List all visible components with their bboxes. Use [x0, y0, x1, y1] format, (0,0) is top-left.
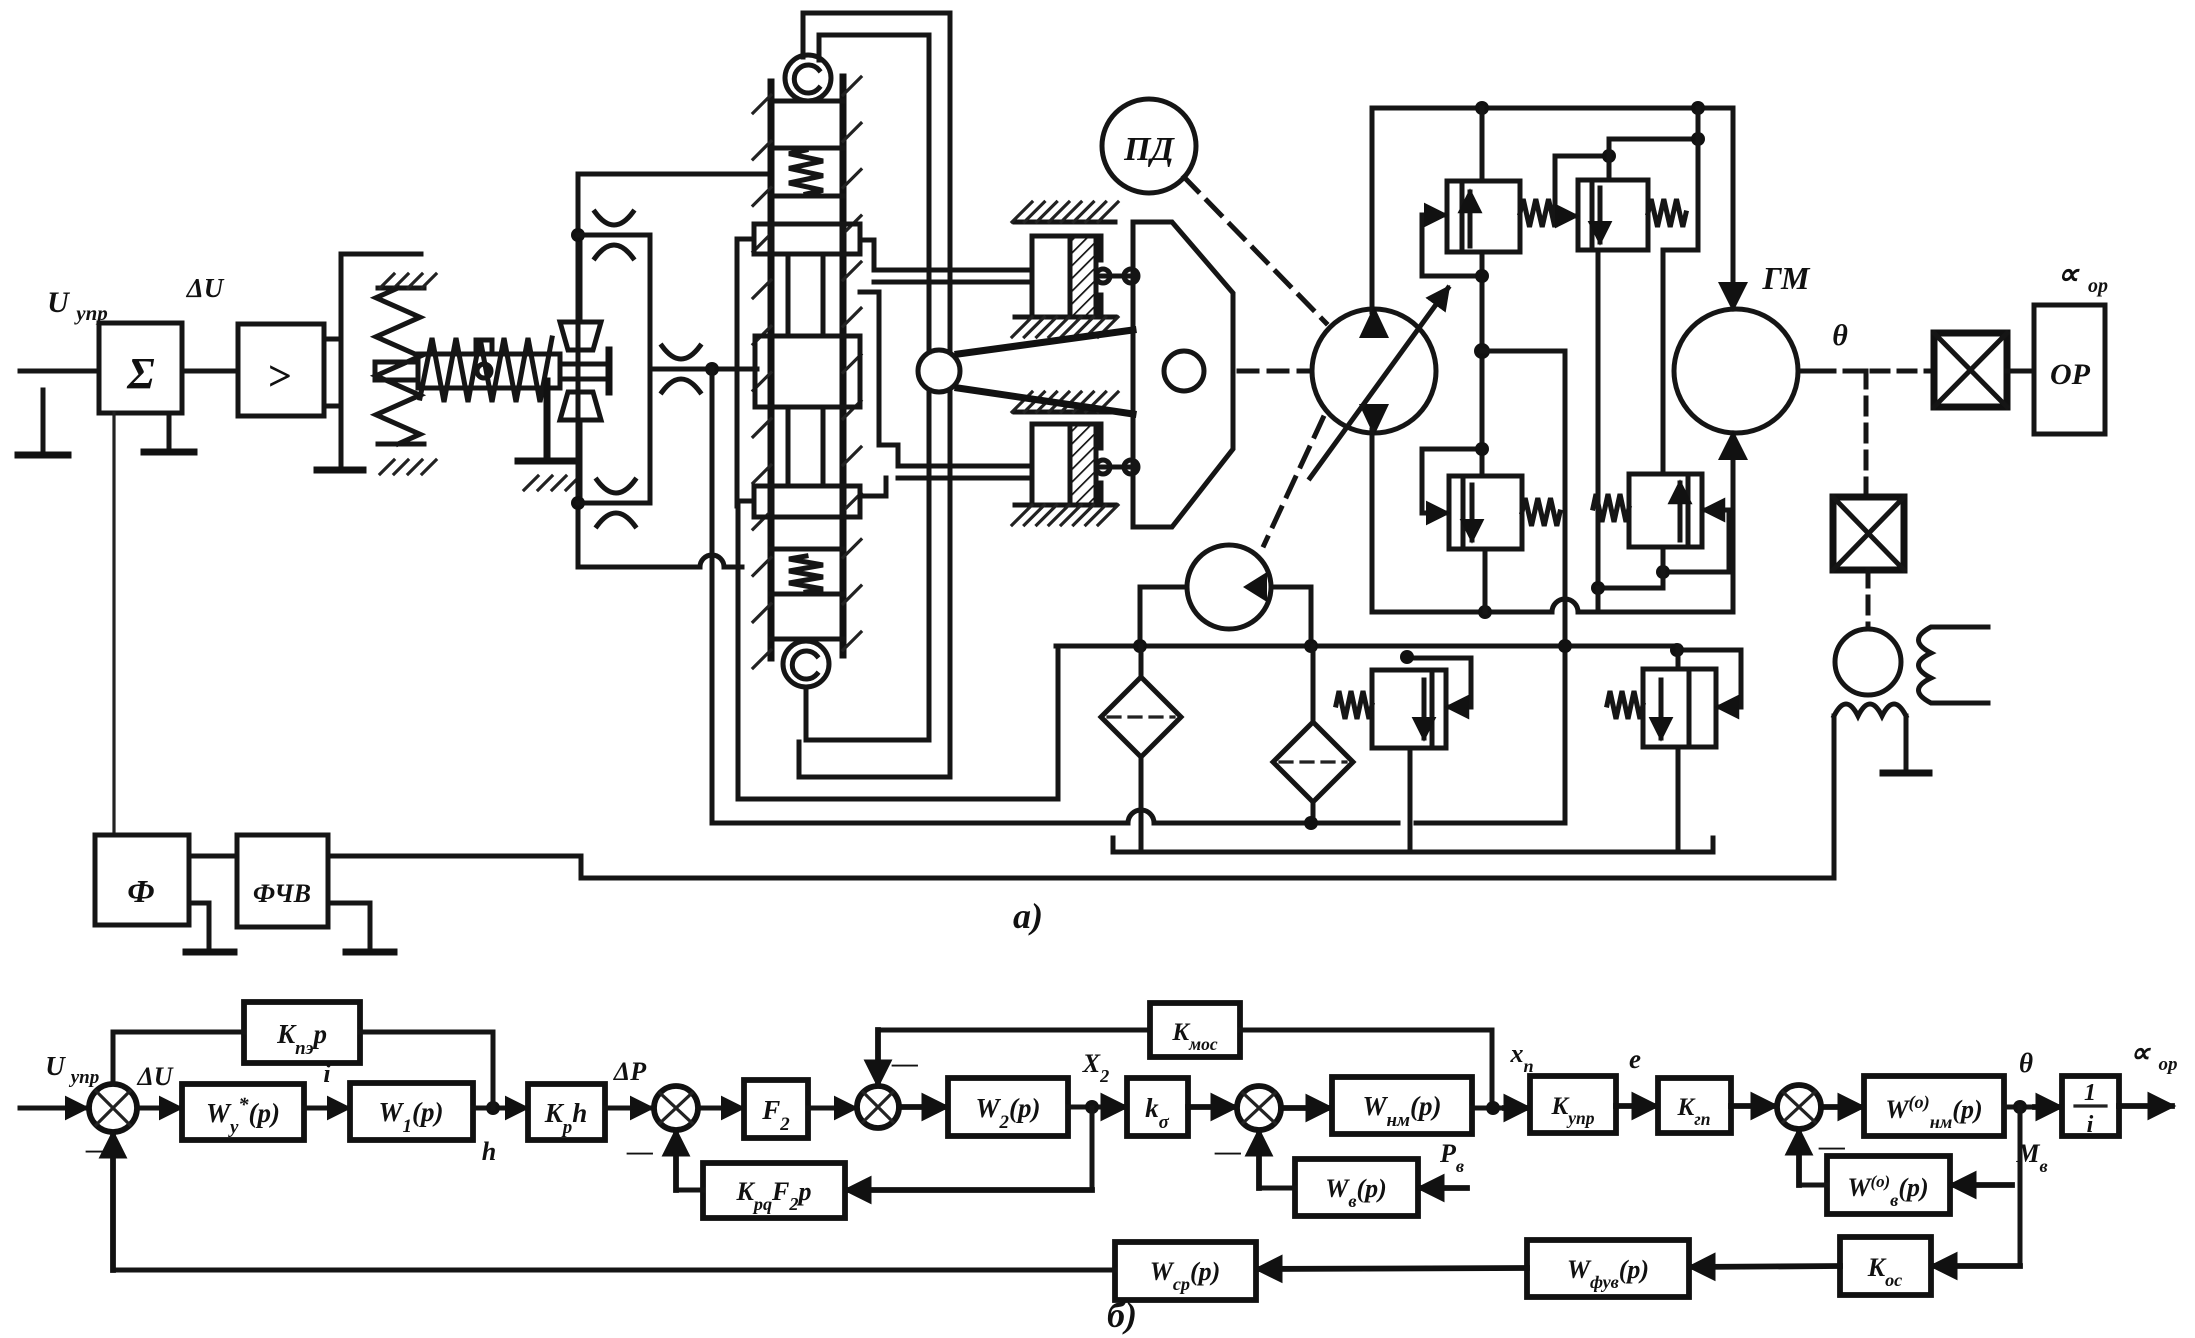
wire RV4 drain: [1598, 547, 1663, 588]
lower nozzle: [560, 392, 601, 420]
upper cylinder body: [1032, 236, 1101, 317]
wire filter F2 stem top: [1311, 646, 1316, 722]
spool lower port flanges: [754, 486, 771, 517]
dashed shaft pump to aux pump: [1264, 418, 1323, 545]
summator block Σ: [99, 323, 182, 413]
block Wcp(p): [1115, 1242, 1256, 1300]
wire main loop top rail: [1372, 106, 1733, 111]
block Kpэр feedforward: [244, 1002, 360, 1063]
svg-text:ГМ: ГМ: [1762, 260, 1812, 296]
phase detector block FChV: [237, 835, 328, 927]
wire spool left drain down: [735, 369, 740, 506]
relief valve RV4 box: [1629, 474, 1702, 547]
block Kgp: [1658, 1078, 1731, 1133]
lower piston rod and joints: [1096, 465, 1131, 470]
wire bridge top to spool housing: [578, 172, 771, 177]
block Wu*(p): [182, 1084, 304, 1140]
spool housing right wall: [840, 77, 847, 655]
wire F2 to S3: [808, 1106, 855, 1111]
svg-text:ΔU: ΔU: [136, 1062, 173, 1091]
upper cylinder top band hatched: [1015, 220, 1115, 225]
filter block F: [95, 835, 189, 925]
upper piston hatched: [1070, 236, 1096, 317]
dashed shaft PD to pump: [1184, 177, 1326, 323]
wire input to summator: [20, 369, 99, 374]
orifice top branch: [595, 212, 633, 225]
wire riser x1058: [738, 646, 1058, 799]
wire S2 to F2: [698, 1106, 742, 1111]
upper cylinder bottom band hatched: [1015, 315, 1115, 320]
RV2 pilot line: [1555, 156, 1609, 216]
wire return bus y823: [712, 821, 1128, 826]
lower roller: [783, 641, 829, 687]
node top rail left dot: [1475, 101, 1489, 115]
feedback spring vertical: [376, 288, 420, 444]
wire aux feed line y646: [1056, 644, 1678, 649]
ground under torque motor frame: [317, 467, 363, 474]
summer S2: [654, 1086, 698, 1130]
wire Kpэр loop: [113, 1032, 244, 1084]
wire bottom inner loop: [806, 687, 929, 740]
wire Wu to W1: [304, 1106, 348, 1111]
wire Kupr to Kgp: [1616, 1103, 1656, 1109]
lower cylinder bottom band hatched: [1015, 503, 1115, 508]
wire rotor left lead: [1832, 716, 1837, 878]
block W1(p): [350, 1083, 473, 1140]
wire KpqF2p loop: [1090, 1108, 1095, 1190]
RV1 pilot line: [1422, 215, 1482, 276]
RV4 spring: [1593, 494, 1629, 522]
wire spool left port upper elbow: [737, 239, 754, 369]
filter F2 diamond: [1273, 722, 1353, 802]
spool upper port flanges: [754, 224, 771, 254]
wire S4 to Wnm: [1281, 1105, 1330, 1111]
svg-text:θ: θ: [1832, 319, 1848, 352]
spool upper chamber line: [771, 222, 843, 227]
lower cylinder top band hatched: [1015, 410, 1115, 415]
block F2: [744, 1080, 808, 1138]
wire RV6 feed: [1676, 646, 1681, 669]
block Wb(o)(p): [1827, 1156, 1950, 1214]
wire pushrod right column: [948, 13, 953, 352]
hydraulic motor GM circle: [1674, 309, 1798, 433]
feedback reducer crossed box: [1833, 497, 1904, 570]
wire theta down to Koc: [2018, 1107, 2023, 1266]
wire Pb input: [1420, 1185, 1467, 1191]
armature pole bump: [476, 340, 492, 354]
wire ksigma to S4: [1188, 1104, 1235, 1110]
synchro generator circle: [1835, 629, 1901, 695]
wire RV4 top feed: [1663, 250, 1698, 474]
wire motor bottom port with arrow: [1731, 445, 1736, 612]
RV6 spring: [1607, 691, 1643, 719]
fork arm upper from ball: [958, 330, 1133, 354]
block Wnm(o)(p): [1864, 1076, 2004, 1136]
dashed shaft to reducer: [1818, 369, 1934, 374]
filter F1 diamond: [1101, 677, 1181, 757]
pump arrow down: [1359, 404, 1389, 436]
svg-text:ПД: ПД: [1123, 131, 1175, 168]
svg-text:i: i: [2087, 1112, 2094, 1138]
ground left of summator: [41, 390, 46, 452]
block W2(p): [948, 1078, 1068, 1136]
block ksigma: [1127, 1078, 1188, 1136]
wire aux pump right pipe: [1271, 587, 1311, 646]
wire RV1 bottom line: [1480, 252, 1485, 476]
relief valve RV2 box: [1578, 180, 1648, 250]
svg-text:ОР: ОР: [2050, 358, 2091, 391]
engine PD circle: [1102, 99, 1196, 193]
wire bridge inner vertical: [648, 235, 653, 503]
wire filter F1 stem top: [1139, 646, 1144, 677]
wire branch to right column: [1482, 349, 1565, 354]
upper piston rod and joints: [1096, 274, 1131, 279]
fork arm lower from ball: [958, 388, 1133, 414]
swash plate pivot hole: [1164, 351, 1204, 391]
spring anchor top hatched: [378, 286, 424, 291]
wire W1 to Kph: [473, 1106, 528, 1111]
block KpqF2p: [703, 1163, 845, 1218]
dashed shaft branch down: [1864, 371, 1869, 497]
wire Kgp to S5: [1731, 1103, 1775, 1109]
main variable pump circle: [1312, 309, 1436, 433]
wire S5 to Wnm2: [1821, 1104, 1862, 1110]
wire Koc to Wfuv: [1691, 1266, 1840, 1267]
svg-text:б): б): [1107, 1295, 1137, 1335]
wire lower nozzle stem: [578, 420, 583, 503]
wire motor shaft theta: [1798, 369, 1818, 374]
wire rotor right lead to ground: [1904, 716, 1909, 770]
wire F to FChV: [189, 854, 237, 859]
block Wnm(p): [1332, 1077, 1472, 1134]
node top rail right dot: [1691, 101, 1705, 115]
wire top outer loop: [803, 13, 950, 57]
svg-text:ор: ор: [2159, 1054, 2178, 1075]
solenoid coil over armature: [418, 354, 560, 388]
torque motor frame: [341, 254, 421, 470]
wire tank line: [1113, 850, 1713, 855]
lower piston hatched: [1070, 424, 1096, 505]
armature rod left tip: [375, 362, 418, 380]
wire top feed column x1698: [1696, 108, 1701, 250]
synchro stator winding: [1919, 627, 1989, 703]
spool center land: [755, 336, 860, 407]
wire RV1 top port: [1480, 108, 1485, 181]
pump variable arrow diagonal: [1310, 288, 1448, 478]
block Wfuv(p): [1527, 1240, 1689, 1297]
armature center circle: [477, 364, 491, 378]
spool bottom spring chamber: [771, 547, 843, 552]
ball joint on pushrod: [918, 350, 960, 392]
svg-text:—: —: [891, 1049, 918, 1078]
wire top inner loop: [819, 35, 929, 60]
upper nozzle: [560, 322, 601, 350]
wire Wb2 to S5: [1799, 1183, 1827, 1188]
amplifier block >: [238, 324, 324, 416]
wire S3 to W2: [899, 1104, 946, 1110]
pump arrow up: [1359, 306, 1389, 338]
wire RV6 drain: [1676, 747, 1681, 852]
wire aux pump left pipe: [1140, 587, 1187, 646]
armature rod right with flapper end: [560, 364, 609, 379]
spool housing left wall: [768, 82, 775, 658]
aux pump arrow: [1243, 572, 1267, 602]
RV1 spring: [1520, 199, 1558, 227]
dashed shaft swash to pump: [1239, 369, 1308, 374]
wire left supply pipe x712: [710, 369, 715, 823]
wire main loop bottom rail with crossover: [1372, 610, 1552, 615]
node Xп: [1472, 1106, 1530, 1111]
wire bridge bottom return with crossover: [578, 565, 700, 570]
node bottom rail dot: [1478, 605, 1492, 619]
wire spool right lower pipe: [860, 292, 898, 466]
block 1/i: [2062, 1076, 2119, 1136]
synchro rotor winding: [1834, 704, 1906, 716]
relief valve RV1 box: [1447, 181, 1520, 252]
wire S1 to Wu: [137, 1106, 180, 1111]
orifice mid branch: [662, 346, 700, 359]
node mid junction dot: [705, 362, 719, 376]
wire reducer to OR: [2007, 369, 2034, 374]
wire Wfuv to Wcp: [1258, 1268, 1527, 1269]
relief valve RV3 box: [1449, 476, 1522, 549]
block Kmoc: [1150, 1003, 1240, 1057]
svg-text:h: h: [482, 1137, 496, 1166]
wire RV2 top port: [1609, 139, 1698, 180]
RV4 pilot line: [1663, 510, 1729, 572]
RV3 spring: [1522, 498, 1560, 526]
block Kupr: [1530, 1076, 1616, 1133]
RV5 pilot line: [1407, 658, 1471, 707]
wire Mb input: [1952, 1182, 2012, 1188]
dashed link to generator: [1866, 570, 1871, 629]
lower cylinder body: [1032, 424, 1101, 505]
summer S3: [857, 1086, 899, 1128]
svg-text:упр: упр: [69, 1067, 100, 1088]
wire RV2 bottom drain: [1596, 250, 1601, 588]
wire amplifier to torque motor frame: [324, 337, 341, 342]
svg-text:ΔU: ΔU: [186, 273, 225, 303]
svg-text:e: e: [1629, 1044, 1641, 1074]
node RV1 drain dot: [1475, 269, 1489, 283]
svg-text:1: 1: [2084, 1080, 2096, 1106]
svg-text:∝: ∝: [2057, 258, 2080, 291]
ground under FChV: [328, 903, 370, 950]
relief valve RV6 box: [1643, 669, 1716, 747]
wire RV5 drain: [1408, 748, 1413, 852]
spool stem lower: [786, 407, 791, 486]
spool top spring: [789, 150, 823, 194]
summer S4: [1237, 1086, 1281, 1130]
wire filter F1 drain: [1139, 757, 1144, 852]
wire right column x1565 down to bus: [1416, 351, 1565, 823]
node RV1 branch dot: [1474, 343, 1490, 359]
wire bridge top branch: [578, 233, 650, 238]
svg-text:ΔP: ΔP: [613, 1057, 647, 1086]
svg-text:—: —: [626, 1137, 653, 1166]
node theta b: [2004, 1105, 2062, 1110]
wire bottom outer loop: [799, 742, 950, 777]
wire upper nozzle stem: [578, 235, 583, 322]
svg-text:Σ: Σ: [126, 349, 154, 398]
wire bridge bottom branch: [578, 501, 650, 506]
summer S5: [1777, 1085, 1821, 1129]
wire long feedback line to FChV: [328, 856, 1834, 878]
RV3 pilot line: [1422, 449, 1482, 513]
wire RV3 bottom port: [1483, 549, 1488, 612]
relief valve RV5 box: [1372, 670, 1446, 748]
ground under F: [189, 903, 209, 950]
svg-text:—: —: [85, 1135, 112, 1164]
wire sigma to F block: [112, 413, 115, 835]
node bridge bottom junction: [571, 496, 585, 510]
wire spool right upper pipe: [860, 240, 874, 270]
svg-text:—: —: [1214, 1137, 1241, 1166]
node bridge top junction: [571, 228, 585, 242]
wire bridge mid to spool: [650, 367, 757, 372]
svg-text:>: >: [267, 354, 291, 400]
wire Kph to S2: [605, 1106, 651, 1111]
steering object OR box: [2034, 305, 2105, 434]
svg-text:∝: ∝: [2130, 1038, 2152, 1069]
wire left drain pipe to bottom: [736, 506, 741, 799]
wire Wb to S4: [1259, 1186, 1295, 1191]
wire Kmoc tap from Xп node: [1240, 1030, 1492, 1108]
wire sigma legs and ground: [167, 413, 172, 448]
summer S1: [89, 1084, 137, 1132]
orifice bottom branch: [597, 480, 635, 493]
wire first stage bridge left vertical: [576, 174, 581, 567]
svg-text:а): а): [1013, 896, 1043, 936]
svg-text:ФЧВ: ФЧВ: [253, 879, 311, 908]
svg-text:U: U: [47, 286, 70, 319]
block Wb(p): [1295, 1159, 1418, 1216]
upper roller: [785, 55, 831, 101]
node X2: [1068, 1105, 1127, 1110]
spool stem upper: [786, 254, 791, 336]
wire pump top port: [1370, 108, 1375, 312]
ground under flapper support: [518, 458, 574, 465]
wire motor top port with arrow: [1731, 108, 1736, 296]
block Kph: [528, 1084, 605, 1140]
spring anchor bottom hatched: [378, 442, 424, 447]
wire summator to amplifier: [182, 369, 238, 374]
block Koc: [1840, 1237, 1931, 1295]
reducer crossed box: [1934, 333, 2007, 407]
wire Wcp to S1 feedback: [113, 1268, 1115, 1273]
wire pushrod left column: [927, 35, 932, 352]
flapper support post: [544, 381, 551, 459]
wire output alpha: [2119, 1103, 2172, 1109]
swash plate: [1133, 222, 1233, 527]
svg-text:ор: ор: [2088, 275, 2108, 297]
wire filter F2 drain: [1311, 802, 1316, 823]
aux charge pump circle: [1187, 545, 1271, 629]
wire Kmoc into S3: [878, 1028, 1150, 1033]
RV6 pilot line: [1677, 650, 1741, 707]
svg-text:θ: θ: [2019, 1048, 2033, 1078]
RV2 spring: [1648, 199, 1686, 227]
RV5 spring: [1336, 691, 1372, 719]
svg-text:U: U: [45, 1051, 66, 1081]
wire pump bottom port: [1370, 430, 1375, 612]
svg-text:Ф: Ф: [127, 873, 154, 909]
spool top cap lines: [771, 99, 843, 104]
